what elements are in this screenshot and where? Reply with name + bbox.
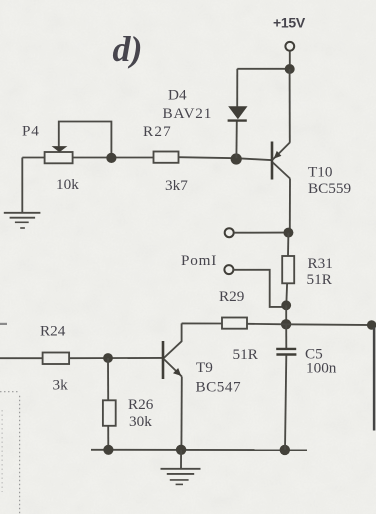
svg-text:10k: 10k [56, 176, 79, 193]
wire: R31 bottom [285, 284, 288, 306]
node: R24/R26 junction [103, 353, 113, 363]
diode D4 [228, 69, 248, 158]
wire: junction to R31 [287, 233, 289, 256]
node: R26 rail junction [103, 445, 113, 455]
wire: row2 left segment to R29 [182, 322, 222, 324]
node: C5 rail junction [280, 445, 290, 455]
label +15V [273, 15, 306, 31]
value 51R (R29) [233, 346, 259, 363]
svg-text:51R: 51R [233, 346, 259, 363]
svg-text:R24: R24 [40, 323, 66, 340]
scan artifact: left edge dash mid [0, 323, 7, 325]
node: T9 emitter rail junction [176, 445, 186, 455]
wire: R26 to bottom rail [107, 426, 109, 450]
resistor R31 [282, 256, 294, 283]
wire: T9 collector riser and bend [164, 323, 182, 358]
wire: row3 left to R24 [0, 357, 43, 359]
value BAV21 [163, 105, 213, 122]
node: D4 cathode junction [231, 153, 242, 164]
wire: row2 right segment to edge [286, 323, 376, 326]
+15V supply terminal [285, 42, 294, 64]
label R31 [308, 255, 333, 272]
node: P4 wiper junction [106, 153, 116, 163]
label R24 [40, 323, 66, 340]
resistor R24 [43, 353, 70, 365]
value 30k [129, 413, 152, 430]
value BC547 [196, 379, 242, 396]
label P4 [22, 123, 40, 140]
svg-text:3k: 3k [53, 377, 69, 394]
wire: junction down to R26 [107, 358, 109, 400]
svg-text:30k: 30k [129, 413, 152, 430]
dotted boundary: inner faint vertical [1, 410, 3, 492]
svg-text:BAV21: BAV21 [163, 105, 213, 122]
wire: left horizontal to P4 [22, 157, 45, 159]
svg-text:D4: D4 [168, 87, 187, 104]
label T10 [308, 164, 333, 181]
label R26 [128, 396, 154, 413]
node: +15V junction [285, 64, 295, 74]
svg-text:+15V: +15V [273, 15, 306, 31]
svg-text:BC559: BC559 [308, 180, 351, 197]
figure label d) [113, 29, 143, 69]
resistor R27 [154, 152, 179, 163]
wire: bottom rail [91, 449, 307, 451]
value 100n [306, 360, 337, 377]
svg-text:R31: R31 [308, 255, 333, 272]
node: right edge junction [367, 320, 376, 329]
ground (bottom, under T9 emitter) [161, 450, 201, 485]
svg-text:R26: R26 [128, 396, 154, 413]
terminal PomI open circle [224, 265, 233, 274]
wire: right edge vertical drop [373, 327, 376, 431]
svg-text:T10: T10 [308, 164, 333, 181]
value 51R (R31) [307, 271, 333, 288]
svg-text:100n: 100n [306, 360, 337, 377]
label T9 [196, 359, 213, 376]
svg-text:51R: 51R [307, 271, 333, 288]
resistor R26 [103, 400, 116, 426]
potentiometer P4 [45, 146, 73, 163]
dotted boundary: horizontal segment [0, 391, 20, 393]
wire: R27 to T10 base [179, 157, 273, 160]
wire: left vertical down to ground [21, 158, 23, 214]
transistor T10 [272, 69, 290, 233]
svg-text:3k7: 3k7 [165, 177, 188, 194]
svg-text:R27: R27 [143, 123, 172, 140]
value 10k [56, 176, 79, 193]
value 3k [53, 377, 69, 394]
label R27 [143, 123, 172, 140]
node: T10 collector junction [283, 228, 293, 238]
svg-text:T9: T9 [196, 359, 213, 376]
value 3k7 [165, 177, 188, 194]
svg-text:R29: R29 [219, 288, 244, 305]
svg-text:PomI: PomI [181, 252, 217, 269]
label PomI [181, 252, 217, 269]
svg-text:BC547: BC547 [196, 379, 242, 396]
svg-text:P4: P4 [22, 123, 40, 140]
terminal: upper open circle [225, 228, 285, 237]
transistor T9 [163, 341, 182, 450]
node: R29 line junction [281, 319, 291, 329]
wire: P4 right to R27 [73, 157, 154, 159]
label C5 [305, 346, 323, 363]
value BC559 [308, 180, 351, 197]
svg-text:d): d) [113, 29, 143, 69]
wire: R24 to T9 base [69, 357, 162, 359]
ground (left, under P4) [4, 213, 41, 228]
dotted boundary: vertical segment [19, 396, 21, 514]
node: R31/PomI junction [281, 300, 291, 310]
resistor R29 [222, 318, 247, 329]
wire: top rail D4 to +15V junction [237, 68, 289, 70]
wire: R29 to junction [247, 323, 286, 326]
wire: PomI to R31 bottom junction [233, 270, 286, 307]
wire: P4 wiper loop [59, 122, 112, 158]
label R29 [219, 288, 244, 305]
capacitor C5 [276, 324, 296, 450]
label D4 [168, 87, 187, 104]
wire: between junctions [285, 305, 287, 324]
